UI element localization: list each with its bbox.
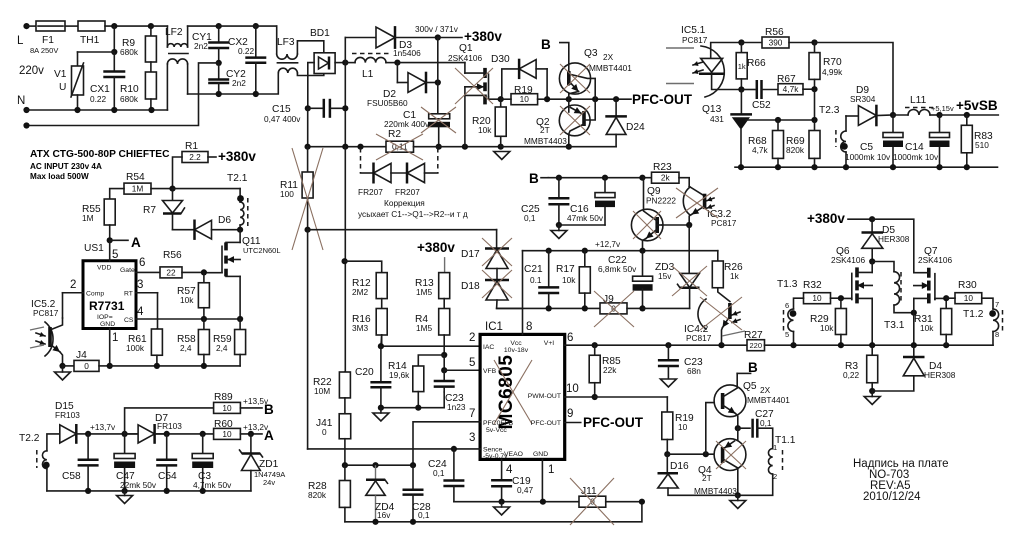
resistor R60 <box>214 428 241 439</box>
svg-text:0.22: 0.22 <box>238 46 255 56</box>
wire +380 to Q7 drain <box>872 219 914 273</box>
svg-text:15v: 15v <box>658 271 672 281</box>
svg-text:0.1: 0.1 <box>530 275 542 285</box>
svg-text:PC817: PC817 <box>33 308 59 318</box>
wire bridge negative down <box>307 108 309 146</box>
resistor R83 <box>966 115 968 125</box>
junction R85 bottom PWM <box>594 383 596 397</box>
svg-text:R54: R54 <box>126 172 145 183</box>
inductor L1 <box>345 62 355 64</box>
svg-text:PFC0FFB: PFC0FFB <box>483 420 514 427</box>
svg-text:L11: L11 <box>910 95 927 106</box>
gate drive rail <box>765 344 994 346</box>
capacitor CY2 <box>218 63 220 79</box>
svg-text:6: 6 <box>785 301 789 310</box>
resistor R17 <box>584 251 586 267</box>
junction Q9 collector <box>639 175 645 181</box>
svg-text:2M2: 2M2 <box>352 287 369 297</box>
junction GND pin node <box>540 499 546 505</box>
svg-text:+380v: +380v <box>218 149 256 164</box>
svg-text:C21: C21 <box>524 264 543 275</box>
svg-text:T2.3: T2.3 <box>819 105 840 116</box>
svg-text:T1.1: T1.1 <box>775 435 796 446</box>
junction C24 tap <box>451 446 457 452</box>
junction C25 bottom <box>556 222 562 228</box>
svg-text:N: N <box>17 95 25 107</box>
svg-text:100k: 100k <box>126 343 145 353</box>
svg-text:+380v: +380v <box>807 211 845 226</box>
capacitor C52 <box>741 89 754 91</box>
junction C1 bottom <box>436 144 442 150</box>
wire BD1 output <box>335 62 345 64</box>
ground symbol IC1 <box>494 507 510 515</box>
junction R60 out node A <box>240 433 262 435</box>
svg-text:0: 0 <box>84 361 89 371</box>
resistor R56 390 <box>741 42 762 44</box>
capacitor C47 <box>124 434 126 453</box>
svg-text:3: 3 <box>469 432 475 444</box>
node N terminal <box>23 107 29 113</box>
svg-text:SR304: SR304 <box>850 94 876 104</box>
wire R89 feed <box>125 408 214 434</box>
svg-text:2n2: 2n2 <box>194 41 208 51</box>
svg-text:PC817: PC817 <box>682 35 708 45</box>
svg-text:F1: F1 <box>42 35 54 46</box>
wire LF2 to CY2 bottom <box>188 93 257 95</box>
wire driver bases <box>667 453 716 455</box>
junction R16 bottom IAC <box>380 335 383 346</box>
wire TH1 to node <box>105 25 151 27</box>
wire R11 node to D17 <box>308 229 497 231</box>
svg-text:FR103: FR103 <box>55 410 80 420</box>
wire D3/D2 node down to C1 <box>437 38 439 114</box>
svg-text:1k: 1k <box>730 271 740 281</box>
svg-text:10k: 10k <box>820 323 834 333</box>
junction Q3 collector leg <box>592 96 598 102</box>
junction Q1 gate node <box>498 96 504 102</box>
svg-text:R60: R60 <box>214 419 233 430</box>
LF2 core <box>169 53 188 55</box>
svg-text:3M3: 3M3 <box>352 323 369 333</box>
wire D30 anode to PFC-OUT row <box>546 69 548 99</box>
IAC wire pin2 <box>381 345 480 347</box>
junction +380 takeoff <box>435 34 441 40</box>
ground symbol C23b <box>660 379 676 387</box>
capacitor CX2 <box>253 23 259 29</box>
svg-text:16v: 16v <box>377 510 391 520</box>
junction R12 tap <box>342 258 348 264</box>
resistor R29 <box>840 298 842 308</box>
wire D16 to gnd row <box>668 488 738 495</box>
resistor R19 pwm <box>666 397 668 412</box>
junction Q6 source R3 <box>869 342 875 348</box>
svg-text:510: 510 <box>975 140 989 150</box>
jumper J11 (crossed) <box>578 501 580 503</box>
svg-text:ZD1: ZD1 <box>259 459 279 470</box>
US1 pin 1 GND <box>109 329 111 366</box>
capacitor C22 <box>642 251 644 276</box>
wire R11 node down to Sence <box>307 230 309 449</box>
junction T2.1 bottom <box>237 227 243 233</box>
junction IC5.2 emitter <box>59 363 65 369</box>
wire PWM row to R19b <box>595 396 668 398</box>
svg-text:PFC-OUT: PFC-OUT <box>531 420 561 427</box>
junction C58 <box>85 431 91 437</box>
svg-text:7: 7 <box>995 300 999 309</box>
capacitor C25 <box>558 178 560 198</box>
svg-text:10k: 10k <box>478 125 492 135</box>
svg-text:T2.2: T2.2 <box>19 433 40 444</box>
svg-text:LF2: LF2 <box>165 27 183 38</box>
junction Q9 base node <box>686 222 692 228</box>
svg-text:2,4: 2,4 <box>180 343 192 353</box>
svg-text:IC1: IC1 <box>485 321 503 333</box>
junction R17 top <box>582 248 588 254</box>
label +380v <box>438 37 462 39</box>
svg-text:V+I: V+I <box>544 340 555 347</box>
choke LF3 top winding <box>276 26 278 54</box>
svg-text:4,7k: 4,7k <box>752 145 769 155</box>
diode D6 <box>173 229 195 231</box>
svg-text:AC INPUT 230v 4A: AC INPUT 230v 4A <box>30 162 102 171</box>
label +5vSB <box>940 114 999 116</box>
svg-text:Q5: Q5 <box>743 381 757 392</box>
svg-text:FR207: FR207 <box>358 187 383 197</box>
svg-text:D24: D24 <box>626 122 645 133</box>
junction V1 bottom <box>74 107 80 113</box>
wire R23 to IC3.2 <box>679 178 689 187</box>
junction R29 bottom <box>838 342 844 348</box>
svg-text:10k: 10k <box>562 275 576 285</box>
junction CX1 bottom <box>111 107 117 113</box>
junction R70 top <box>811 39 817 45</box>
svg-text:220: 220 <box>749 341 762 350</box>
svg-text:2k: 2k <box>661 173 671 183</box>
svg-text:R89: R89 <box>214 392 233 403</box>
diode D2 <box>408 73 426 93</box>
IC1 box MC6805 (crossed) <box>480 334 565 459</box>
svg-text:MMBT4403: MMBT4403 <box>524 136 567 146</box>
transistor Q2 MMBT4403 (crossed) <box>559 105 590 136</box>
junction R31 bottom <box>943 342 949 348</box>
wire L1 to D2 <box>396 63 398 83</box>
node CY midpoint <box>216 60 222 66</box>
svg-text:R67: R67 <box>777 74 796 85</box>
svg-text:0,47: 0,47 <box>517 485 534 495</box>
svg-text:CS: CS <box>124 317 134 324</box>
svg-text:Max load 500W: Max load 500W <box>30 172 89 181</box>
wire bus x345 down <box>344 147 346 372</box>
wire R56 node to D9 node <box>815 43 894 116</box>
junction L1 out <box>394 60 400 66</box>
resistor R59 <box>239 319 241 330</box>
junction gate node Q11 <box>201 269 207 275</box>
svg-text:R23: R23 <box>653 162 672 173</box>
ground symbol PFC <box>494 152 510 160</box>
svg-text:IAC: IAC <box>483 344 494 351</box>
svg-text:R17: R17 <box>556 264 575 275</box>
resistor R9 <box>148 23 154 29</box>
svg-text:4,7k: 4,7k <box>783 84 800 94</box>
svg-text:220v: 220v <box>19 65 44 77</box>
wire R2 to ground node <box>414 146 501 148</box>
svg-text:1M5: 1M5 <box>416 287 433 297</box>
capacitor C1 (crossed) <box>429 114 450 119</box>
svg-text:R30: R30 <box>958 280 977 291</box>
sense row wire <box>308 146 386 148</box>
svg-text:ATX CTG-500-80P CHIEFTEC: ATX CTG-500-80P CHIEFTEC <box>30 149 170 160</box>
svg-text:PFC-OUT: PFC-OUT <box>583 415 644 430</box>
svg-text:FR103: FR103 <box>157 421 182 431</box>
svg-text:10: 10 <box>222 403 232 413</box>
wire R12 top <box>345 261 382 272</box>
diode D16 <box>666 454 668 473</box>
resistor R57 <box>203 272 205 282</box>
svg-text:1k: 1k <box>738 62 746 71</box>
dashed correction link left <box>360 148 362 173</box>
svg-text:+13,7v: +13,7v <box>90 422 116 432</box>
pin6 V+I row <box>595 344 747 346</box>
wire to D3 <box>344 38 346 63</box>
svg-text:820k: 820k <box>786 145 805 155</box>
resistor R68 <box>777 120 779 131</box>
svg-text:0.22: 0.22 <box>90 94 107 104</box>
junction C25 <box>556 175 562 181</box>
capacitor C21 <box>548 251 550 287</box>
ground at J4 <box>55 372 71 380</box>
svg-text:R32: R32 <box>803 280 822 291</box>
junction C23b top <box>665 342 671 348</box>
capacitor C24 <box>453 449 455 480</box>
svg-text:HER308: HER308 <box>878 234 910 244</box>
resistor R4 <box>443 299 445 309</box>
svg-text:1: 1 <box>773 443 777 452</box>
svg-text:MC6805: MC6805 <box>496 355 517 430</box>
junction Q4 collector gnd <box>735 492 741 498</box>
zener ZD1 1N4749A <box>250 434 252 453</box>
junction C22 bottom <box>639 305 645 311</box>
junction R17 bottom <box>582 305 588 311</box>
diode D3 <box>376 27 395 48</box>
capacitor C16 <box>602 175 608 181</box>
junction R3 bottom <box>871 383 873 391</box>
svg-text:R7731: R7731 <box>89 299 125 313</box>
capacitor C27 <box>738 427 750 429</box>
US1 pin 5 <box>109 240 111 260</box>
Vcc B row <box>548 177 651 179</box>
resistor R23 <box>652 172 680 183</box>
bridge rectifier BD1 <box>314 53 335 74</box>
label A startup <box>110 239 128 241</box>
+12.7 rail <box>523 250 718 252</box>
svg-text:1n5406: 1n5406 <box>393 48 421 58</box>
svg-text:R27: R27 <box>744 330 763 341</box>
junction R69 top <box>811 117 817 123</box>
ground symbol R3 <box>864 397 880 405</box>
ground symbol aux <box>117 496 133 504</box>
svg-text:100: 100 <box>280 189 294 199</box>
diode D17 (crossed) <box>496 230 498 248</box>
svg-text:10: 10 <box>678 422 688 432</box>
svg-text:усыхает C1-->Q1-->R2--и т д: усыхает C1-->Q1-->R2--и т д <box>358 209 468 219</box>
junction R11 bottom <box>305 227 311 233</box>
dashed correction link right <box>437 148 439 173</box>
svg-text:US1: US1 <box>84 243 104 254</box>
junction CX2 bottom <box>253 91 259 97</box>
svg-text:J9: J9 <box>603 294 614 305</box>
svg-text:U: U <box>59 82 66 93</box>
svg-text:B: B <box>529 171 539 186</box>
IC US1 R7731 box <box>83 261 136 329</box>
svg-text:431: 431 <box>710 114 724 124</box>
resistor R2 (crossed) <box>386 141 414 152</box>
junction CY2 bottom <box>216 91 222 97</box>
svg-text:2SK4106: 2SK4106 <box>918 255 953 265</box>
svg-text:2: 2 <box>773 472 777 481</box>
svg-text:1M: 1M <box>132 184 144 194</box>
capacitor C14 <box>939 115 941 132</box>
wire PFC-OUT row <box>538 98 631 100</box>
svg-text:R56: R56 <box>163 250 182 261</box>
svg-text:1000mk 10v: 1000mk 10v <box>845 152 891 162</box>
svg-text:Comp: Comp <box>86 291 104 298</box>
svg-text:A: A <box>264 428 274 443</box>
wire F1 to TH1 <box>65 25 78 27</box>
svg-text:J4: J4 <box>76 350 87 361</box>
svg-text:220mk 400v: 220mk 400v <box>384 119 430 129</box>
wire L1 to Q1 drain <box>397 62 465 64</box>
junction Q5 base tap <box>703 451 709 457</box>
wire R9 to R10 <box>150 62 152 72</box>
junction CS R59 <box>237 316 243 322</box>
junction D9 out <box>890 112 896 118</box>
junction T1.3 bottom <box>790 342 796 348</box>
LF3 core <box>277 62 297 64</box>
resistor R61 <box>156 328 159 330</box>
capacitor C23 68n <box>667 345 669 360</box>
junction R1/R54/T2.1 <box>169 186 175 192</box>
thermistor TH1 <box>78 21 105 31</box>
svg-text:UTC2N60L: UTC2N60L <box>243 246 281 255</box>
svg-text:T1.3: T1.3 <box>777 279 798 290</box>
node L terminal <box>23 23 29 29</box>
svg-text:B: B <box>541 37 551 52</box>
inductor L11 <box>893 114 908 116</box>
junction Q2 collector <box>566 144 572 150</box>
capacitor C54 <box>166 434 168 459</box>
svg-text:4,7mk 50v: 4,7mk 50v <box>193 480 232 490</box>
junction pin1 node <box>107 363 113 369</box>
svg-text:22k: 22k <box>603 365 617 375</box>
diode D7 FR103 <box>125 433 139 435</box>
svg-text:2: 2 <box>469 332 475 344</box>
junction C19 gnd <box>499 499 505 505</box>
junction D4 cathode <box>911 342 917 348</box>
aux rail 13.7 <box>88 433 214 435</box>
wire Q13 ref <box>746 119 815 121</box>
resistor R85 <box>594 345 596 355</box>
junction R4 bottom to R14 <box>441 352 447 358</box>
choke LF2 line winding <box>151 25 168 27</box>
resistor R31 <box>945 298 947 308</box>
svg-text:VDD: VDD <box>97 265 111 272</box>
svg-text:0,1: 0,1 <box>760 418 772 428</box>
svg-text:L1: L1 <box>362 69 374 80</box>
ground symbol C20 <box>373 413 389 421</box>
svg-text:B: B <box>264 402 274 417</box>
junction Q5 emitter C27 <box>735 425 741 431</box>
svg-text:7: 7 <box>469 408 475 420</box>
svg-text:MMBT4401: MMBT4401 <box>589 63 632 73</box>
svg-text:0: 0 <box>322 427 327 437</box>
junction Q9 emitter rail <box>639 248 645 254</box>
svg-text:10M: 10M <box>314 386 330 396</box>
jumper J9 (crossed) <box>600 303 627 314</box>
choke LF3 bottom winding <box>257 73 279 94</box>
diode D9 SR304 <box>846 115 858 117</box>
svg-text:6,8mk 50v: 6,8mk 50v <box>598 264 637 274</box>
wire BD1 negative to C15 <box>308 63 314 109</box>
svg-text:10k: 10k <box>180 295 194 305</box>
capacitor C19 <box>491 479 512 482</box>
svg-text:10k: 10k <box>920 323 934 333</box>
junction R10 bottom <box>148 107 154 113</box>
svg-text:4,99k: 4,99k <box>822 67 843 77</box>
svg-text:4: 4 <box>137 306 144 318</box>
node B at Q5 <box>737 372 750 374</box>
svg-text:PFC-OUT: PFC-OUT <box>632 92 693 107</box>
choke LF2 neutral winding <box>166 64 168 110</box>
svg-text:680k: 680k <box>120 94 139 104</box>
svg-text:390: 390 <box>769 38 783 48</box>
svg-text:B: B <box>748 360 758 375</box>
svg-text:VFB: VFB <box>483 368 497 375</box>
svg-text:5: 5 <box>785 330 789 339</box>
svg-text:A: A <box>131 235 141 250</box>
svg-text:Vcc: Vcc <box>510 340 522 347</box>
svg-text:2T: 2T <box>702 473 712 483</box>
svg-text:5: 5 <box>112 249 118 261</box>
resistor R67 <box>778 84 803 95</box>
resistor R11 (crossed) <box>307 147 309 172</box>
junction Q6 gate node <box>838 295 844 301</box>
US1 pin 4 CS wire <box>136 318 240 320</box>
svg-text:0,1: 0,1 <box>418 510 430 520</box>
svg-text:Q3: Q3 <box>584 48 598 59</box>
svg-text:0,22: 0,22 <box>843 370 860 380</box>
svg-text:MMBT4401: MMBT4401 <box>747 395 790 405</box>
compensation ground row <box>381 392 444 408</box>
svg-text:1: 1 <box>548 464 554 476</box>
resistor R89 <box>214 402 241 413</box>
diode D4 HER308 <box>913 345 915 357</box>
wire divider node down <box>814 89 816 120</box>
svg-text:3: 3 <box>137 279 143 291</box>
svg-text:+12,7v: +12,7v <box>595 239 621 249</box>
US1 pin 3 RT wire <box>136 292 158 294</box>
SCR R7 <box>172 189 174 200</box>
svg-text:680k: 680k <box>120 47 139 57</box>
resistor R27 <box>747 340 765 351</box>
svg-text:R56: R56 <box>765 27 784 38</box>
svg-text:1M5: 1M5 <box>416 323 433 333</box>
svg-text:2n2: 2n2 <box>232 78 246 88</box>
fuse F1 <box>36 21 65 31</box>
svg-text:47mk 50v: 47mk 50v <box>567 213 604 223</box>
transistor Q1 2SK4106 (crossed) <box>464 63 466 74</box>
svg-text:2010/12/24: 2010/12/24 <box>863 491 921 503</box>
junction L11 out <box>930 114 940 116</box>
